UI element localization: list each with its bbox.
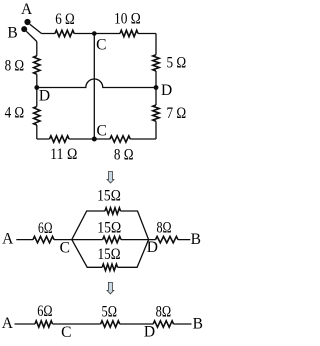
- svg-text:D: D: [147, 239, 158, 256]
- wire A to C (middle circuit): [16, 239, 72, 241]
- svg-text:C: C: [97, 123, 107, 140]
- svg-text:A: A: [2, 230, 14, 247]
- resistor 11 ohm (bottom left): [50, 136, 70, 142]
- resistor 15 ohm (middle branch): [103, 236, 121, 242]
- svg-text:C: C: [60, 239, 70, 256]
- resistor 5 ohm (right upper): [153, 55, 159, 71]
- node A terminal dot: [24, 19, 30, 25]
- svg-text:15Ω: 15Ω: [98, 246, 121, 263]
- wire top side: [42, 33, 157, 35]
- resistor 4 ohm (left lower): [34, 107, 40, 126]
- svg-text:A: A: [2, 315, 14, 332]
- wire D to B (middle circuit): [149, 239, 191, 241]
- svg-text:B: B: [193, 315, 203, 332]
- wire right side: [155, 34, 157, 140]
- svg-text:6 Ω: 6 Ω: [55, 11, 75, 28]
- resistor 8 ohm (bottom circuit): [153, 321, 173, 327]
- svg-text:15Ω: 15Ω: [97, 187, 121, 204]
- svg-text:A: A: [21, 1, 33, 18]
- svg-text:6Ω: 6Ω: [38, 220, 53, 237]
- svg-text:11 Ω: 11 Ω: [50, 146, 77, 163]
- equivalence arrow 2 (double down arrow): [107, 282, 114, 294]
- resistor 6 ohm (middle circuit): [33, 236, 54, 242]
- svg-text:5 Ω: 5 Ω: [166, 55, 186, 72]
- node D left junction: [34, 85, 39, 90]
- svg-text:D: D: [144, 323, 155, 340]
- node C (middle circuit): [71, 239, 73, 241]
- svg-text:8Ω: 8Ω: [156, 220, 171, 237]
- svg-text:15Ω: 15Ω: [97, 220, 121, 237]
- svg-text:5Ω: 5Ω: [102, 304, 118, 321]
- resistor 6 ohm (bottom circuit): [35, 321, 53, 327]
- svg-text:8 Ω: 8 Ω: [5, 57, 25, 74]
- resistor 10 ohm (top right): [120, 30, 138, 36]
- wire upper branch: [72, 211, 149, 240]
- svg-text:4 Ω: 4 Ω: [5, 105, 25, 122]
- svg-text:7 Ω: 7 Ω: [166, 105, 186, 122]
- node D right junction: [154, 85, 159, 90]
- wire D-D middle horizontal with hop over C wire: [37, 79, 156, 88]
- wire C-C middle vertical: [93, 34, 95, 140]
- wire left side: [36, 42, 38, 140]
- svg-text:6Ω: 6Ω: [37, 303, 52, 320]
- svg-text:C: C: [96, 37, 106, 54]
- resistor 15 ohm (lower branch): [102, 264, 117, 270]
- svg-text:10 Ω: 10 Ω: [114, 10, 141, 27]
- resistor 15 ohm (upper branch): [105, 208, 121, 214]
- switch blade from A to top wire: [30, 24, 42, 33]
- resistor 8 ohm (bottom right): [110, 136, 130, 142]
- resistor 8 ohm (left upper): [34, 56, 40, 74]
- wire bottom side: [37, 138, 156, 140]
- node C top junction: [92, 31, 97, 36]
- resistor 7 ohm (right lower): [153, 105, 159, 121]
- resistor 8 ohm (middle circuit): [156, 236, 179, 242]
- svg-text:8Ω: 8Ω: [156, 304, 172, 321]
- svg-text:D: D: [39, 87, 50, 104]
- svg-text:8 Ω: 8 Ω: [114, 146, 134, 163]
- resistor 5 ohm (bottom circuit): [101, 321, 120, 327]
- node B terminal dot: [21, 26, 27, 32]
- node C bottom junction: [92, 137, 97, 142]
- resistor 6 ohm (top left): [55, 30, 74, 36]
- node D (middle circuit): [148, 239, 150, 241]
- wire middle branch: [72, 239, 149, 241]
- wire lower branch: [72, 240, 149, 268]
- equivalence arrow 1 (double down arrow): [107, 172, 114, 184]
- switch blade from B to left wire: [26, 31, 37, 41]
- svg-text:D: D: [161, 82, 172, 99]
- svg-text:B: B: [7, 25, 17, 42]
- wire bottom circuit: [15, 323, 192, 325]
- svg-text:B: B: [191, 231, 201, 248]
- svg-text:C: C: [61, 324, 71, 341]
